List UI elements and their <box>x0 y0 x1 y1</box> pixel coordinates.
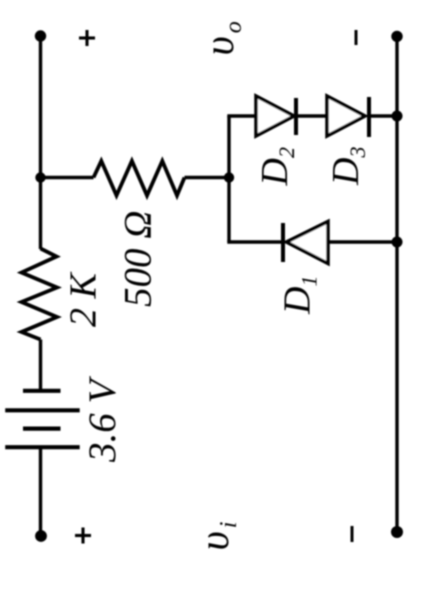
wire: middle vertical between diode branches <box>227 116 230 242</box>
svg-text:D1: D1 <box>277 276 322 315</box>
node: junction of D2/D3 branch with right rail <box>392 111 403 122</box>
diode D2 triangle <box>256 96 294 136</box>
wire: from 500 ohm resistor to middle junction <box>185 176 230 179</box>
node: junction of left rail and 500 ohm branch <box>35 172 45 182</box>
label: minus sign top-right <box>355 30 358 45</box>
resistor R1 2K (vertical zigzag) <box>22 249 58 340</box>
resistor R2 500 ohm (horizontal zigzag) <box>94 161 185 196</box>
label: 500 ohm value <box>117 211 160 307</box>
svg-text:υo: υo <box>197 21 247 55</box>
svg-text:D3: D3 <box>325 147 370 186</box>
wire: from D1 to right rail <box>328 240 397 243</box>
wire: upper branch from middle vertical to D2 <box>227 114 256 117</box>
label: plus sign top-left <box>79 30 95 46</box>
wire: from D3 to right rail <box>369 114 397 117</box>
label: D1 <box>277 276 322 315</box>
wire: horizontal from left junction to 500 ohm resistor <box>41 176 94 179</box>
battery V1 3.6V: plate 3 (short, negative) <box>23 427 61 431</box>
diode D1 triangle (pointing left) <box>287 222 329 264</box>
node: top-right terminal dot <box>391 31 402 42</box>
wire: between D2 and D3 <box>296 114 327 117</box>
label: output voltage v_o <box>197 21 247 55</box>
node: middle junction dot <box>224 172 234 182</box>
battery V1 3.6V: plate 4 (long, positive) <box>5 445 80 449</box>
label: input voltage v_i <box>192 522 242 551</box>
svg-text:υi: υi <box>192 522 242 551</box>
diode D3 cathode bar <box>367 97 371 137</box>
label: D2 <box>254 147 299 186</box>
node: top-left terminal dot <box>35 30 46 41</box>
svg-text:D2: D2 <box>254 147 299 186</box>
label: 2 K value <box>63 272 105 328</box>
label: minus sign bottom-right <box>351 526 354 542</box>
diode D2 cathode bar <box>294 98 298 135</box>
diode D1 cathode bar <box>281 223 285 262</box>
battery V1 3.6V: plate 2 (long, positive) <box>5 408 80 412</box>
diode D3 triangle <box>327 96 365 136</box>
node: bottom-left terminal dot <box>35 530 47 542</box>
node: junction of D1 branch with right rail <box>392 237 403 248</box>
svg-text:3.6 V: 3.6 V <box>81 376 124 464</box>
label: 3.6 V value <box>81 376 124 464</box>
wire: lower branch from middle vertical to D1 <box>227 240 283 243</box>
svg-text:500 Ω: 500 Ω <box>117 211 160 307</box>
wire: left rail from top terminal down to 2K resistor <box>39 36 42 249</box>
node: bottom-right terminal dot <box>391 526 403 538</box>
wire: right rail <box>395 36 398 532</box>
battery V1 3.6V: plate 1 (short, negative) <box>23 389 61 393</box>
svg-text:2 K: 2 K <box>63 272 105 328</box>
label: plus sign bottom-left <box>75 528 91 544</box>
wire: from 2K resistor to battery <box>39 340 42 390</box>
label: D3 <box>325 147 370 186</box>
wire: from battery to bottom-left terminal <box>39 447 42 536</box>
